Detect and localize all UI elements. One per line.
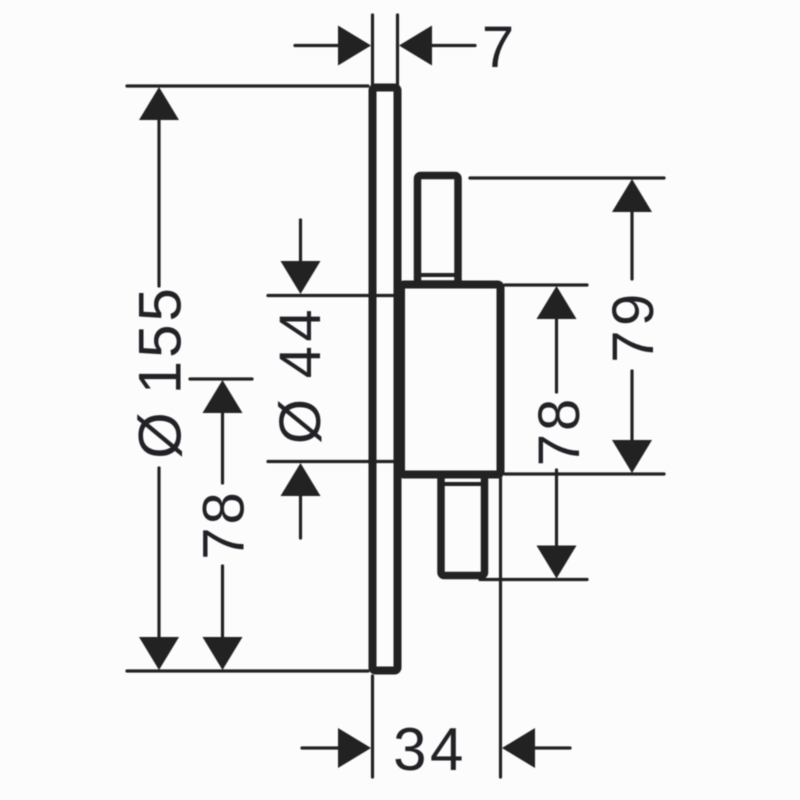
arrowhead 7 right (points left) [399,26,432,66]
lower stem shoulder line [441,482,485,486]
svg-text:78: 78 [192,489,257,560]
arrowhead 78 right top (points up) [537,286,577,319]
upper stem shoulder line [418,273,459,277]
svg-text:7: 7 [482,15,517,80]
escutcheon plate (side view) [373,88,398,671]
arrowhead 79 top (points up) [612,179,652,212]
svg-text:Ø 155: Ø 155 [127,285,194,459]
arrowhead 78 right bottom (points down) [537,546,577,579]
dimension 79: bottom extension line [505,472,664,475]
svg-text:78: 78 [527,396,592,467]
upper stem [418,176,459,285]
dimension O44: bottom extension line [268,460,396,463]
dimension 7: left arrow tail [295,44,340,47]
arrowhead 34 right (points left) [502,728,535,768]
dimension 34: right extension line [499,478,502,777]
arrowhead O155 bottom (points down) [139,637,179,670]
dimension O155: top extension line [127,84,368,87]
dimension 34: left extension line [371,676,374,777]
dimension 7: extension line left [371,15,374,85]
dimension 7: right arrow tail [432,44,475,47]
dimension 78 left: top extension line [190,377,252,380]
arrowhead 34 left (points right) [338,728,371,768]
arrowhead O44 top (points down) [281,261,321,294]
dimension O155: dim line upper segment [157,118,160,286]
dimension 7: extension line right [396,15,399,85]
dimension 78 right: dim line lower segment [555,470,558,547]
dimension 78 left: dim line lower segment [221,566,224,640]
dimension O44: lower tail [299,494,302,538]
svg-text:34: 34 [393,716,467,783]
dimension 79: top extension line [470,176,664,179]
arrowhead 79 bottom (points down) [612,440,652,473]
dimension 78 left: dim line upper segment [221,411,224,483]
arrowhead O155 top (points up) [139,87,179,120]
lower stem [441,475,485,576]
dimension O155: bottom extension line (shared with 78 left) [127,669,368,672]
dimension O44: upper tail [299,220,302,263]
dimension 34: left arrow tail [302,746,341,749]
arrowhead 78 left top (points up) [203,380,243,413]
dimension 78 right: bottom extension line [480,578,587,581]
dimension 79: dim line lower segment [630,371,633,442]
valve body sleeve [401,285,501,475]
dimension 79: dim line upper segment [630,210,633,279]
dimension 78 right: top extension line [505,283,587,286]
dimension 78 right: dim line upper segment [555,317,558,392]
dimension O155: dim line lower segment [157,468,160,640]
svg-text:79: 79 [601,289,666,363]
dimension O44: top extension line [268,294,396,297]
arrowhead O44 bottom (points up) [281,463,321,496]
arrowhead 78 left bottom (points down) [203,637,243,670]
arrowhead 7 left (points right) [338,26,371,66]
dimension 34: right arrow tail [531,746,570,749]
svg-text:Ø 44: Ø 44 [268,305,333,444]
